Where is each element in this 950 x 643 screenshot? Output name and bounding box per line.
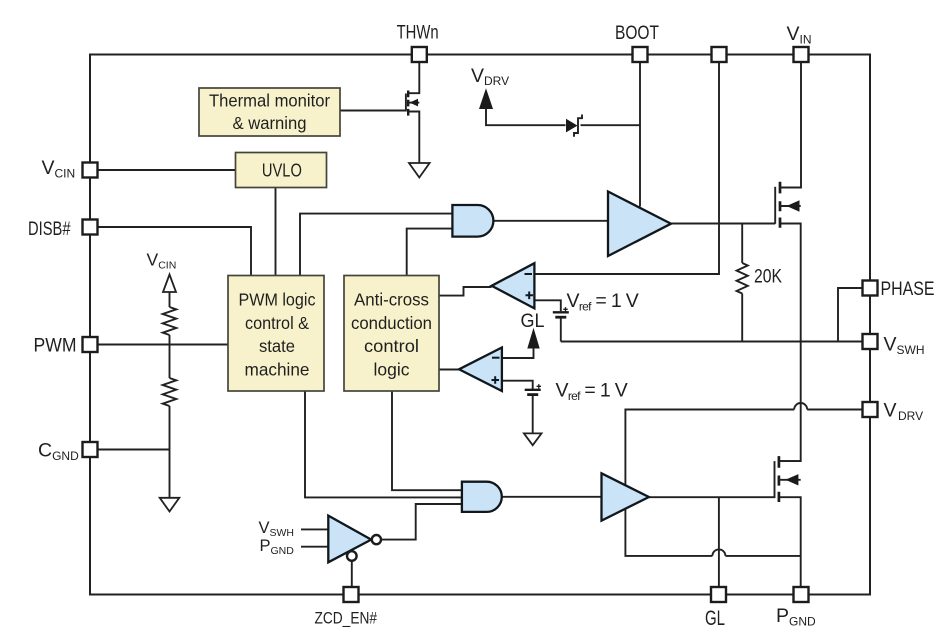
svg-text:VSWH: VSWH bbox=[259, 519, 295, 539]
svg-text:VDRV: VDRV bbox=[471, 65, 509, 88]
svg-text:GL: GL bbox=[705, 607, 725, 630]
svg-text:machine: machine bbox=[245, 360, 310, 380]
pin V_DRV right bbox=[863, 400, 924, 424]
resistor R1 divider top bbox=[163, 307, 177, 335]
wire thermal box to Q3 gate bbox=[340, 110, 406, 112]
svg-text:conduction: conduction bbox=[351, 313, 432, 333]
svg-text:VCIN: VCIN bbox=[147, 250, 177, 272]
svg-text:logic: logic bbox=[374, 360, 410, 380]
pin BOOT bbox=[615, 22, 659, 62]
svg-text:PWM: PWM bbox=[34, 335, 77, 357]
thermal monitor block bbox=[199, 88, 340, 136]
svg-text:Thermal monitor: Thermal monitor bbox=[209, 91, 330, 111]
wire divider mid segment bbox=[169, 335, 171, 378]
wire V_DRV pin rail with hop over Q1-Q2 column bbox=[625, 410, 862, 556]
wire comparator B minus to GL arrow stem bbox=[502, 348, 534, 358]
wire divider bottom to ground bbox=[169, 406, 171, 498]
wire battery B1 to V_SWH rail bbox=[560, 318, 562, 341]
wire AND2 output to driver U2 bbox=[502, 496, 602, 498]
label P_GND inverter input bbox=[260, 537, 295, 557]
svg-text:PGND: PGND bbox=[260, 537, 295, 557]
svg-text:VSWH: VSWH bbox=[884, 334, 925, 358]
resistor R2 divider bottom bbox=[163, 378, 177, 406]
V_CIN supply arrow (hollow) bbox=[147, 250, 177, 293]
wire inverter input stub V_SWH bbox=[301, 528, 328, 530]
pin V_CIN bbox=[42, 157, 98, 181]
svg-text:VIN: VIN bbox=[787, 23, 812, 47]
wire 20K resistor bottom to V_SWH rail bbox=[741, 294, 743, 342]
wire THWn pin to Q3 drain bbox=[408, 62, 419, 93]
resistor R3 20K gate pulldown bbox=[737, 263, 783, 293]
wire Q2 source to P_GND pin bbox=[779, 497, 801, 587]
pin PHASE bbox=[863, 278, 935, 300]
hop arc on driver U2 lower rail over GL vertical bbox=[712, 549, 725, 555]
wire PWM box bottom to AND2 input B bbox=[305, 391, 462, 497]
comparator B bbox=[459, 348, 502, 392]
wire PHASE pin jog to V_SWH rail bbox=[838, 288, 863, 342]
pin THWn bbox=[397, 22, 439, 63]
UVLO block bbox=[236, 153, 327, 188]
wire V_SWH rail bbox=[561, 341, 863, 343]
wire BOOT pin to driver U1 top bbox=[639, 62, 641, 207]
svg-text:THWn: THWn bbox=[397, 22, 439, 44]
pin PWM bbox=[34, 335, 98, 357]
wire comparator A plus to Vref battery B1 bbox=[534, 300, 560, 311]
wire Q1 source to V_SWH rail bbox=[780, 224, 801, 342]
svg-text:Vref = 1 V: Vref = 1 V bbox=[556, 380, 628, 404]
anti-cross conduction control logic block bbox=[344, 276, 439, 392]
svg-text:GL: GL bbox=[521, 310, 545, 332]
svg-text:ZCD_EN#: ZCD_EN# bbox=[315, 609, 378, 628]
GL net arrow (filled) bbox=[521, 310, 545, 349]
MOSFET Q2 low-side bbox=[775, 456, 801, 502]
svg-text:Vref = 1 V: Vref = 1 V bbox=[567, 290, 639, 314]
wire V_IN pin to Q1 drain bbox=[780, 62, 801, 188]
pin GH unlabeled bbox=[712, 47, 727, 62]
wire V_CIN arrow stem bbox=[169, 292, 171, 308]
wire ZCD inverter enable bubble to ZCD_EN# pin bbox=[351, 561, 353, 587]
wire V_CIN pin to UVLO bbox=[98, 169, 236, 171]
svg-text:VCIN: VCIN bbox=[42, 157, 76, 181]
wire PWM box top to AND1 input A bbox=[300, 214, 452, 276]
pin V_SWH bbox=[863, 334, 925, 358]
bootstrap schottky diode D1 bbox=[566, 115, 582, 137]
hop arc on V_DRV rail bbox=[794, 403, 807, 409]
svg-text:control: control bbox=[364, 336, 419, 356]
wire battery B2 to ground bbox=[532, 396, 534, 434]
pin DISB# bbox=[28, 218, 98, 240]
svg-text:20K: 20K bbox=[754, 267, 782, 288]
ground under divider bbox=[160, 498, 180, 512]
wire PWM pin to PWM box bbox=[98, 344, 229, 346]
svg-text:VDRV: VDRV bbox=[884, 400, 924, 424]
svg-text:DISB#: DISB# bbox=[28, 218, 71, 240]
Vref battery B2 bbox=[525, 380, 628, 404]
svg-text:Anti-cross: Anti-cross bbox=[354, 290, 429, 310]
comparator A bbox=[492, 263, 535, 308]
pin C_GND bbox=[38, 440, 98, 464]
driver U2 bbox=[602, 473, 649, 520]
svg-text:state: state bbox=[259, 336, 295, 356]
wire driver U1 output to Q1 gate bbox=[671, 223, 775, 225]
pin V_IN bbox=[787, 23, 812, 62]
wire driver U2 output to Q2 gate bbox=[649, 496, 775, 498]
wire comparator B plus to Vref battery B2 bbox=[502, 381, 533, 389]
MOSFET Q1 high-side bbox=[775, 182, 801, 228]
wire AND1 output to driver U1 bbox=[493, 220, 608, 222]
pin GL bbox=[705, 587, 726, 630]
svg-text:UVLO: UVLO bbox=[262, 160, 302, 181]
svg-text:control &: control & bbox=[245, 313, 309, 333]
ZCD inverter U3 bbox=[328, 516, 381, 563]
ground under battery B2 bbox=[524, 433, 542, 445]
pin P_GND bbox=[776, 587, 816, 629]
wire V_DRV arrow to bootstrap diode to BOOT net bbox=[486, 109, 640, 125]
ground under Q3 bbox=[409, 163, 430, 178]
wire UVLO to PWM logic box bbox=[275, 188, 277, 276]
AND gate G2 bbox=[462, 482, 502, 512]
AND gate G1 bbox=[452, 205, 493, 237]
svg-text:PWM logic: PWM logic bbox=[239, 290, 316, 310]
wire C_GND pin to divider bbox=[98, 449, 170, 451]
svg-text:PGND: PGND bbox=[776, 605, 816, 629]
wire comparator B output to anti-cross box bbox=[439, 369, 459, 371]
Vref battery B1 bbox=[553, 290, 639, 317]
pin ZCD_EN# bbox=[315, 587, 378, 628]
wire DISB# to PWM logic box bbox=[98, 227, 252, 276]
wire anti-cross box top to AND1 input B bbox=[407, 229, 453, 276]
svg-text:& warning: & warning bbox=[233, 113, 307, 133]
IC boundary bbox=[90, 55, 870, 595]
driver U1 bbox=[608, 192, 671, 257]
wire 20K resistor top to gate line bbox=[741, 224, 743, 264]
wire inverter output to AND2 input C bbox=[381, 504, 462, 540]
MOSFET Q3 thermal bbox=[406, 91, 419, 116]
wire inverter input stub P_GND bbox=[301, 546, 328, 548]
svg-text:BOOT: BOOT bbox=[615, 22, 659, 44]
wire V_SWH rail down to Q2 drain bbox=[779, 342, 801, 462]
wire comparator A output to anti-cross box bbox=[439, 287, 492, 296]
wire GL pin vertical to gate line bbox=[718, 497, 720, 587]
V_DRV supply arrow (filled) bbox=[471, 65, 509, 109]
wire Q3 source to ground bbox=[408, 112, 419, 164]
wire GH pin vertical to comparator A minus bbox=[534, 62, 719, 274]
svg-text:PHASE: PHASE bbox=[881, 278, 935, 300]
wire anti-cross box bottom to AND2 input A bbox=[392, 391, 462, 490]
label V_SWH inverter input bbox=[259, 519, 295, 539]
svg-text:CGND: CGND bbox=[38, 440, 79, 464]
PWM logic control and state machine block bbox=[228, 276, 324, 392]
